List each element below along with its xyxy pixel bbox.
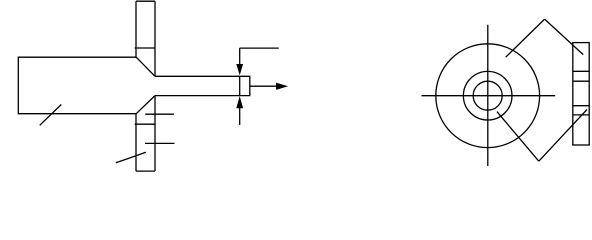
left view: tick line A [145,113,174,115]
left view: top boss top edge [136,0,155,2]
left view: shallow hatch mark at lower tab [116,152,146,163]
left view: lower dimension arrowhead (up) [236,96,243,108]
left view: tick line B [135,123,156,125]
left view: motion arrow head [276,83,288,90]
left view: shaft tip square [240,76,250,95]
left view: shaft top edge [155,75,240,77]
right view: inner circle [473,81,502,110]
right view: middle circle [463,71,512,120]
left view: body outline [18,57,136,113]
left view: lower tab bottom edge [136,170,155,172]
right view: side rectangle groove line 2 [573,80,589,82]
left view: hatch mark on body bottom [40,105,62,126]
left view: motion arrow shaft [250,85,277,87]
right view: side rectangle groove line 3 [573,105,589,107]
left view: lower tab right edge [154,96,156,172]
left view: top boss inner line [135,47,155,49]
right view: diamond lower-left edge [497,112,539,162]
right view: side rectangle groove line 4 [573,114,589,116]
right view: diamond upper-left edge [506,19,545,57]
right view: side rectangle outline [573,43,589,145]
left view: upper dimension line [239,48,241,64]
right view: vertical centerline [487,25,489,166]
right view: diamond lower-right edge [539,110,587,162]
right view: diamond upper-right edge [545,19,584,55]
right view: side rectangle groove line 1 [573,70,589,72]
left view: lower chamfer [136,96,155,114]
right view: horizontal centerline [422,95,556,97]
left view: upper chamfer [136,57,155,76]
left view: tick line C [145,142,175,144]
right view: outer circle [436,44,540,148]
left view: shaft bottom edge [155,95,240,97]
left view: lower dimension line [239,108,241,125]
left view: dimension leader (top horizontal) [240,47,279,49]
left view: lower tab left edge [135,114,137,171]
left view: top boss right edge [154,1,156,76]
left view: top boss left edge [135,1,137,57]
left view: upper dimension arrowhead (down) [236,64,243,75]
